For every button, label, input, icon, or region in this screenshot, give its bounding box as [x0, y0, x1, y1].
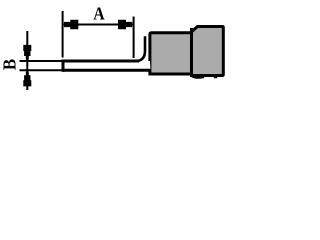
dimension A: right extension line: [133, 17, 135, 59]
dimension A: left arrowhead (stepped): [64, 20, 78, 30]
pin bottom edge: [63, 69, 151, 72]
svg-text:B: B: [0, 59, 20, 71]
divider between sleeve sections: [190, 28, 193, 75]
dimension B: vertical dimension line: [26, 31, 28, 90]
insulation sleeve rear section (gray, taller, chamfered right corners): [192, 27, 224, 76]
dimension B: top extension tick: [20, 60, 62, 62]
flare/transition lip from pin to sleeve mouth: [138, 36, 146, 61]
dimension B: bottom extension tick: [20, 69, 62, 71]
insulation sleeve front section (gray): [150, 33, 192, 74]
pin left end cap: [62, 60, 65, 72]
dip of rear sleeve bottom near divider: [192, 76, 205, 78]
dimension A: dimension line: [64, 24, 133, 26]
dimension A: right arrowhead (stepped): [118, 20, 132, 30]
dimension A: left extension line: [62, 11, 64, 58]
dimension B: lower arrowhead (pointing up, stepped): [23, 72, 31, 87]
dimension B: upper arrowhead (pointing down, stepped): [23, 45, 31, 60]
crimp indent nub under rear sleeve: [214, 75, 217, 79]
pin top edge: [63, 60, 139, 63]
pin (long flat terminal pin), white with black outline: [63, 61, 151, 70]
svg-text:A: A: [93, 4, 105, 24]
